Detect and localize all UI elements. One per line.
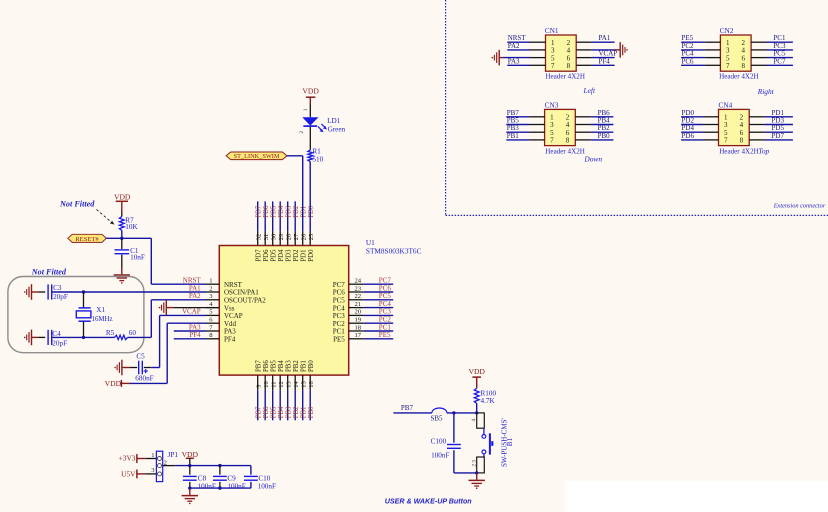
wire CN1 to VCAP [576, 57, 614, 59]
svg-text:PA3: PA3 [508, 57, 520, 65]
svg-text:PD4: PD4 [278, 205, 285, 218]
wire CN1 to gnd [576, 49, 591, 51]
svg-text:OSCIN/PA1: OSCIN/PA1 [224, 289, 259, 297]
svg-text:Header 4X2H: Header 4X2H [719, 147, 759, 155]
svg-text:Not Fitted: Not Fitted [31, 268, 67, 277]
U1 left pin 4 [206, 301, 235, 312]
wire C100 to ground node [454, 472, 477, 474]
svg-text:PD1: PD1 [301, 206, 308, 218]
svg-text:PC4: PC4 [379, 300, 392, 308]
U1 bottom pin 11 [271, 360, 278, 421]
JP1 pin circles [158, 457, 162, 476]
svg-text:Not Fitted: Not Fitted [59, 199, 95, 208]
wire PA3 to CN1 [507, 64, 545, 66]
junction button bottom [475, 471, 478, 474]
svg-text:PA2: PA2 [508, 42, 520, 50]
capacitor C4 20pF [48, 330, 67, 348]
svg-text:100nF: 100nF [198, 483, 216, 491]
svg-text:PB2: PB2 [293, 406, 300, 418]
svg-text:PD6: PD6 [263, 205, 270, 218]
U1 left pin 1 [206, 278, 243, 289]
svg-text:100nF: 100nF [258, 483, 276, 491]
svg-text:+3V3: +3V3 [119, 453, 136, 462]
svg-text:PF4: PF4 [224, 336, 236, 344]
power port VDD (reset pull-up) [114, 193, 131, 212]
U1 right pin 18 [333, 324, 393, 335]
svg-text:60: 60 [129, 329, 137, 337]
svg-text:PF4: PF4 [599, 57, 611, 65]
svg-text:7: 7 [724, 137, 728, 145]
svg-text:PA2: PA2 [189, 292, 201, 300]
svg-text:C8: C8 [198, 475, 207, 483]
svg-text:PB4: PB4 [278, 406, 285, 418]
svg-text:PD0: PD0 [308, 249, 315, 262]
power port VDD (JP1) [182, 450, 199, 459]
U1 bottom pin 12 [278, 360, 285, 421]
U1 bottom pin 14 [293, 360, 300, 421]
svg-text:2: 2 [209, 285, 212, 292]
svg-text:PB7: PB7 [256, 406, 263, 418]
svg-text:7: 7 [550, 137, 554, 145]
svg-text:8: 8 [567, 62, 571, 70]
svg-text:4: 4 [471, 419, 477, 422]
svg-text:Vdd: Vdd [224, 320, 237, 328]
U1 bottom pin 9 [256, 360, 263, 421]
U1 top pin 32 [256, 201, 263, 261]
svg-text:PB1: PB1 [507, 132, 520, 140]
wire CN4 to PD7 [749, 139, 793, 141]
resistor R5 60 [106, 329, 136, 339]
svg-text:1: 1 [209, 278, 212, 285]
wire R100 to button [476, 404, 478, 413]
resistor R1 510 [308, 147, 324, 163]
wire gnd to C3 [32, 291, 39, 293]
wire CN1 to PF4 [576, 64, 614, 66]
svg-text:14: 14 [293, 381, 300, 388]
svg-text:680nF: 680nF [135, 374, 153, 382]
svg-text:1: 1 [303, 108, 309, 111]
svg-text:PB3: PB3 [286, 360, 293, 372]
wire gnd to CN1 [503, 57, 530, 59]
svg-text:32: 32 [256, 234, 263, 240]
solder bridge SB5 [431, 408, 447, 423]
svg-text:27: 27 [293, 233, 300, 240]
U1 bottom pin 15 [301, 360, 308, 420]
resistor R100 4.7K [474, 388, 496, 405]
power port U5V [121, 469, 137, 478]
svg-text:21: 21 [355, 301, 362, 308]
crystal X1 16MHz [76, 292, 112, 337]
svg-text:PC5: PC5 [379, 292, 392, 300]
junction VDD node [188, 464, 191, 467]
wire U5V to JP1 pin 3 [137, 473, 146, 475]
capacitor C8 100nF [183, 466, 216, 491]
wire SB5 to button node [447, 412, 477, 414]
svg-text:PC5: PC5 [333, 297, 346, 305]
svg-text:3: 3 [472, 460, 478, 463]
port RESET# [68, 234, 107, 243]
wire PD2 to CN4 [681, 124, 718, 126]
wire C5 to VCAP (U1 pin 5) [144, 367, 151, 369]
svg-text:USER & WAKE-UP Button: USER & WAKE-UP Button [385, 498, 472, 506]
svg-text:PB0: PB0 [308, 406, 315, 418]
U1 bottom pin 10 [263, 360, 270, 421]
wire C4 to R5 [52, 336, 114, 338]
svg-text:16: 16 [308, 381, 315, 387]
svg-text:9: 9 [256, 384, 263, 387]
svg-text:C100: C100 [431, 437, 447, 445]
U1 right pin 22 [333, 293, 393, 304]
U1 right pin 23 [333, 285, 393, 296]
svg-text:Extension connector: Extension connector [773, 202, 826, 209]
wire C3 to OSCIN/PA1 (U1 pin 2) [52, 291, 206, 293]
svg-text:VCAP: VCAP [224, 312, 243, 320]
svg-text:PD6: PD6 [263, 249, 270, 262]
wire SWIM to PD1 (U1 pin 26) [287, 155, 303, 157]
ground (C3) [31, 284, 33, 300]
junction crystal bottom [82, 336, 85, 339]
svg-text:8: 8 [566, 137, 570, 145]
svg-text:PA3: PA3 [224, 328, 236, 336]
svg-text:11: 11 [271, 382, 278, 388]
svg-text:2: 2 [472, 464, 478, 467]
wire PA2 to CN1 [507, 49, 545, 51]
svg-text:VCAP: VCAP [182, 308, 201, 316]
wire NRST to CN1 [507, 41, 545, 43]
svg-text:PC6: PC6 [682, 57, 695, 65]
svg-text:10K: 10K [125, 223, 138, 231]
junction reset node [120, 237, 123, 240]
wire PF4 stub (U1 pin 8) [174, 338, 206, 340]
U1 right pin 21 [333, 301, 393, 312]
svg-text:PB7: PB7 [256, 360, 263, 372]
wire PB7 to CN3 [506, 116, 544, 118]
svg-text:PB5: PB5 [271, 360, 278, 372]
wire gnd to Vss [166, 307, 173, 309]
svg-text:8: 8 [742, 62, 746, 70]
svg-text:26: 26 [301, 234, 308, 240]
wire CN2 to PC3 [751, 49, 793, 51]
svg-text:20pF: 20pF [52, 340, 67, 348]
wire R1 to PD0 (U1 pin 25) [309, 162, 311, 232]
wire PB5 to CN3 [506, 124, 544, 126]
svg-text:15: 15 [301, 381, 308, 387]
svg-text:VDD: VDD [302, 86, 319, 95]
svg-text:PC2: PC2 [333, 320, 346, 328]
svg-text:7: 7 [551, 62, 555, 70]
svg-text:Top: Top [758, 146, 769, 155]
svg-text:PC7: PC7 [379, 277, 392, 285]
svg-text:30: 30 [271, 234, 278, 240]
wire CN1 to PA1 [576, 41, 614, 43]
svg-text:PD1: PD1 [301, 250, 308, 262]
svg-text:CN1: CN1 [545, 26, 559, 35]
svg-text:VDD: VDD [105, 379, 122, 388]
power port +3V3 [119, 453, 137, 463]
wire PB1 to CN3 [506, 139, 544, 141]
wire CN3 to PB0 [575, 139, 613, 141]
svg-text:29: 29 [278, 234, 285, 240]
svg-text:28: 28 [286, 234, 293, 240]
svg-text:R5: R5 [106, 329, 115, 337]
junction crystal top [82, 290, 85, 293]
svg-text:PC7: PC7 [333, 281, 346, 289]
wire LD1 to R1 [309, 127, 311, 150]
svg-text:PC6: PC6 [333, 289, 346, 297]
svg-text:PD2: PD2 [293, 205, 300, 218]
svg-text:VDD: VDD [468, 367, 485, 376]
ground (U1 Vss pin 4) [165, 300, 167, 316]
svg-text:10nF: 10nF [130, 254, 145, 262]
header CN2 body [720, 35, 751, 71]
svg-text:LD1: LD1 [327, 117, 341, 125]
wire CN2 to PC1 [751, 41, 793, 43]
resistor R7 10K (not fitted) [119, 217, 138, 231]
svg-text:23: 23 [355, 285, 362, 292]
svg-text:PC6: PC6 [379, 284, 392, 292]
svg-text:PD3: PD3 [286, 249, 293, 262]
svg-text:Header 4X2H: Header 4X2H [545, 147, 585, 155]
svg-text:Header 4X2H: Header 4X2H [545, 73, 585, 81]
U1 left pin 6 [206, 317, 237, 328]
ground (C1) [121, 268, 123, 275]
U1 top pin 29 [278, 201, 285, 261]
wire CN3 to PB6 [575, 116, 613, 118]
wire JP1 pin 2 to VDD node [163, 465, 176, 467]
svg-text:VDD: VDD [114, 193, 131, 202]
svg-text:C3: C3 [53, 284, 62, 292]
svg-text:B1: B1 [506, 438, 514, 447]
svg-text:NRST: NRST [224, 281, 243, 289]
svg-text:18: 18 [355, 324, 362, 331]
svg-text:C10: C10 [258, 475, 270, 483]
wire PB3 to CN3 [506, 131, 544, 133]
ground (C8) [189, 488, 191, 495]
header CN4 body [719, 109, 750, 145]
svg-text:PC3: PC3 [379, 308, 392, 316]
svg-text:ST_LINK_SWIM: ST_LINK_SWIM [234, 153, 280, 160]
wire CN3 to PB2 [575, 131, 613, 133]
wire CN3 to PB4 [575, 124, 613, 126]
svg-text:NRST: NRST [183, 277, 202, 285]
svg-text:C9: C9 [227, 475, 236, 483]
capacitor C5 680nF [135, 353, 153, 383]
wire PD4 to CN4 [681, 131, 718, 133]
header CN3 body [545, 109, 576, 145]
header CN1 body [546, 35, 577, 71]
svg-text:PD6: PD6 [682, 132, 695, 140]
op-amp U1 STM8S003K3T6C MCU body [219, 246, 348, 376]
svg-text:24: 24 [355, 278, 362, 285]
junction button top [475, 411, 478, 414]
svg-text:PC2: PC2 [379, 316, 392, 324]
svg-text:2: 2 [299, 131, 305, 134]
wire VDD to LD1 [309, 105, 311, 118]
ground (button) [476, 473, 478, 480]
svg-text:PB1: PB1 [301, 360, 308, 372]
wire R5 to OSCOUT/PA2 (U1 pin 3) [128, 336, 152, 338]
U1 top pin 28 [286, 201, 293, 261]
svg-text:CN4: CN4 [719, 100, 733, 109]
svg-text:PB6: PB6 [263, 360, 270, 372]
svg-text:PE5: PE5 [333, 336, 345, 344]
U1 left pin 2 [206, 285, 259, 296]
svg-text:17: 17 [355, 332, 362, 339]
svg-text:PD7: PD7 [256, 205, 263, 218]
svg-text:PB7: PB7 [401, 404, 414, 412]
svg-text:20: 20 [355, 309, 362, 316]
wire PD0 to CN4 [681, 116, 718, 118]
svg-text:PC4: PC4 [333, 304, 346, 312]
not fitted region box (crystal) [8, 277, 144, 353]
svg-text:PD0: PD0 [308, 205, 315, 218]
svg-text:PD4: PD4 [278, 249, 285, 262]
svg-text:PA1: PA1 [189, 284, 201, 292]
svg-text:U5V: U5V [121, 469, 136, 478]
wire VDD to Vdd (U1 pin 6) [121, 382, 130, 384]
U1 top pin 26 [301, 231, 308, 261]
wire VDD to R7 [121, 212, 123, 217]
svg-text:PC1: PC1 [379, 323, 392, 331]
svg-text:PB5: PB5 [271, 406, 278, 418]
sheet edge white area [565, 481, 828, 512]
svg-text:PB0: PB0 [308, 360, 315, 372]
svg-text:8: 8 [740, 137, 744, 145]
svg-text:Vss: Vss [224, 304, 235, 312]
svg-text:100nF: 100nF [227, 483, 245, 491]
wire PB7 to SB5 [393, 412, 432, 414]
svg-text:19: 19 [355, 317, 362, 324]
svg-text:7: 7 [726, 62, 730, 70]
svg-text:CN3: CN3 [545, 100, 559, 109]
svg-text:PD7: PD7 [772, 132, 785, 140]
capacitor C3 20pF [48, 284, 68, 301]
U1 left pin 8 [206, 332, 236, 343]
ground (CN1 pin 5) [498, 50, 500, 66]
U1 left pin 3 [206, 293, 266, 304]
power port VDD (button) [468, 367, 485, 388]
svg-text:PB3: PB3 [286, 406, 293, 418]
svg-text:PD5: PD5 [271, 249, 278, 262]
U1 bottom pin 16 [308, 360, 315, 421]
svg-text:PB6: PB6 [263, 406, 270, 418]
svg-text:Green: Green [328, 126, 346, 134]
port ST_LINK_SWIM [226, 152, 287, 160]
capacitor C10 100nF [244, 466, 276, 491]
svg-text:R1: R1 [312, 147, 321, 155]
U1 right pin 20 [333, 309, 393, 320]
U1 top pin 31 [263, 201, 270, 261]
U1 top pin 25 [308, 231, 315, 261]
svg-text:1: 1 [151, 452, 154, 459]
svg-text:OSCOUT/PA2: OSCOUT/PA2 [224, 297, 266, 305]
wire PA3 stub (U1 pin 7) [174, 330, 206, 332]
U1 top pin 30 [271, 201, 278, 261]
ground (C5) [121, 360, 123, 376]
wire CN4 to PD5 [749, 131, 793, 133]
svg-text:PA1: PA1 [599, 34, 611, 42]
wire RESET# to NRST net [106, 237, 151, 239]
svg-text:PC1: PC1 [333, 328, 346, 336]
svg-text:4.7K: 4.7K [481, 397, 496, 405]
ground (CN1 pin 4) [619, 42, 621, 58]
svg-text:510: 510 [312, 156, 323, 164]
not fitted annotation (R7) [59, 199, 115, 224]
svg-text:Left: Left [583, 86, 596, 95]
junction C8 bottom [188, 486, 191, 489]
wire PE5 to CN2 [681, 41, 720, 43]
junction C100 top [452, 411, 455, 414]
ground (C4) [31, 330, 33, 346]
junction C9 bottom [218, 486, 221, 489]
wire CN4 to PD1 [749, 116, 793, 118]
svg-text:Right: Right [757, 87, 775, 96]
svg-text:16MHz: 16MHz [92, 316, 113, 323]
power port VDD (C5) [105, 379, 122, 388]
svg-text:31: 31 [263, 234, 270, 240]
wire CN2 to PC7 [751, 64, 793, 66]
wire gnd to C5 [122, 367, 130, 369]
svg-text:PB0: PB0 [598, 132, 611, 140]
svg-text:PD3: PD3 [286, 205, 293, 218]
U1 bottom pin 13 [286, 360, 293, 421]
wire R7 to reset node [121, 230, 123, 238]
svg-text:12: 12 [278, 381, 285, 387]
svg-text:PB1: PB1 [301, 407, 308, 419]
wire PC4 to CN2 [681, 57, 720, 59]
svg-text:STM8S003K3T6C: STM8S003K3T6C [366, 247, 422, 256]
svg-text:Header 4X2H: Header 4X2H [719, 73, 759, 81]
svg-text:PF4: PF4 [189, 331, 201, 339]
capacitor C1 10nF [115, 238, 145, 267]
svg-text:JP1: JP1 [168, 450, 179, 459]
svg-text:13: 13 [286, 381, 293, 387]
wire NRST down to U1 pin 1 [150, 238, 152, 284]
U1 left pin 7 [206, 324, 236, 335]
svg-text:X1: X1 [96, 306, 105, 314]
wire VDD to node [189, 458, 191, 465]
svg-text:PB2: PB2 [293, 360, 300, 372]
wire ground bus (C8-C10) [190, 487, 251, 489]
capacitor C100 100nF [431, 413, 461, 473]
wire PC6 to CN2 [681, 64, 720, 66]
svg-text:25: 25 [308, 234, 315, 240]
junction C9 top [218, 464, 221, 467]
svg-text:CN2: CN2 [720, 26, 734, 35]
svg-text:PA3: PA3 [189, 323, 201, 331]
svg-text:10: 10 [263, 381, 270, 387]
transistor B1 SW-PUSH-CMS push button [471, 413, 514, 473]
svg-text:RESET#: RESET# [75, 236, 99, 243]
svg-text:PD7: PD7 [256, 249, 263, 262]
LED LD1 Green [302, 117, 345, 133]
svg-text:PD5: PD5 [271, 205, 278, 218]
U1 right pin 19 [333, 317, 393, 328]
U1 right pin 17 [333, 332, 393, 343]
wire gnd to C4 [32, 336, 39, 338]
extension connector dotted boundary [446, 0, 828, 215]
U1 right pin 24 [333, 278, 393, 289]
svg-text:PE5: PE5 [379, 331, 391, 339]
wire PC2 to CN2 [681, 49, 720, 51]
svg-text:20pF: 20pF [53, 293, 68, 301]
U1 top pin 27 [293, 201, 300, 261]
power port VDD (LED) [302, 86, 319, 104]
svg-text:PC3: PC3 [333, 312, 346, 320]
svg-text:Down: Down [583, 155, 602, 164]
wire +3V3 to JP1 pin 1 [137, 458, 146, 460]
wire CN2 to PC5 [751, 57, 793, 59]
